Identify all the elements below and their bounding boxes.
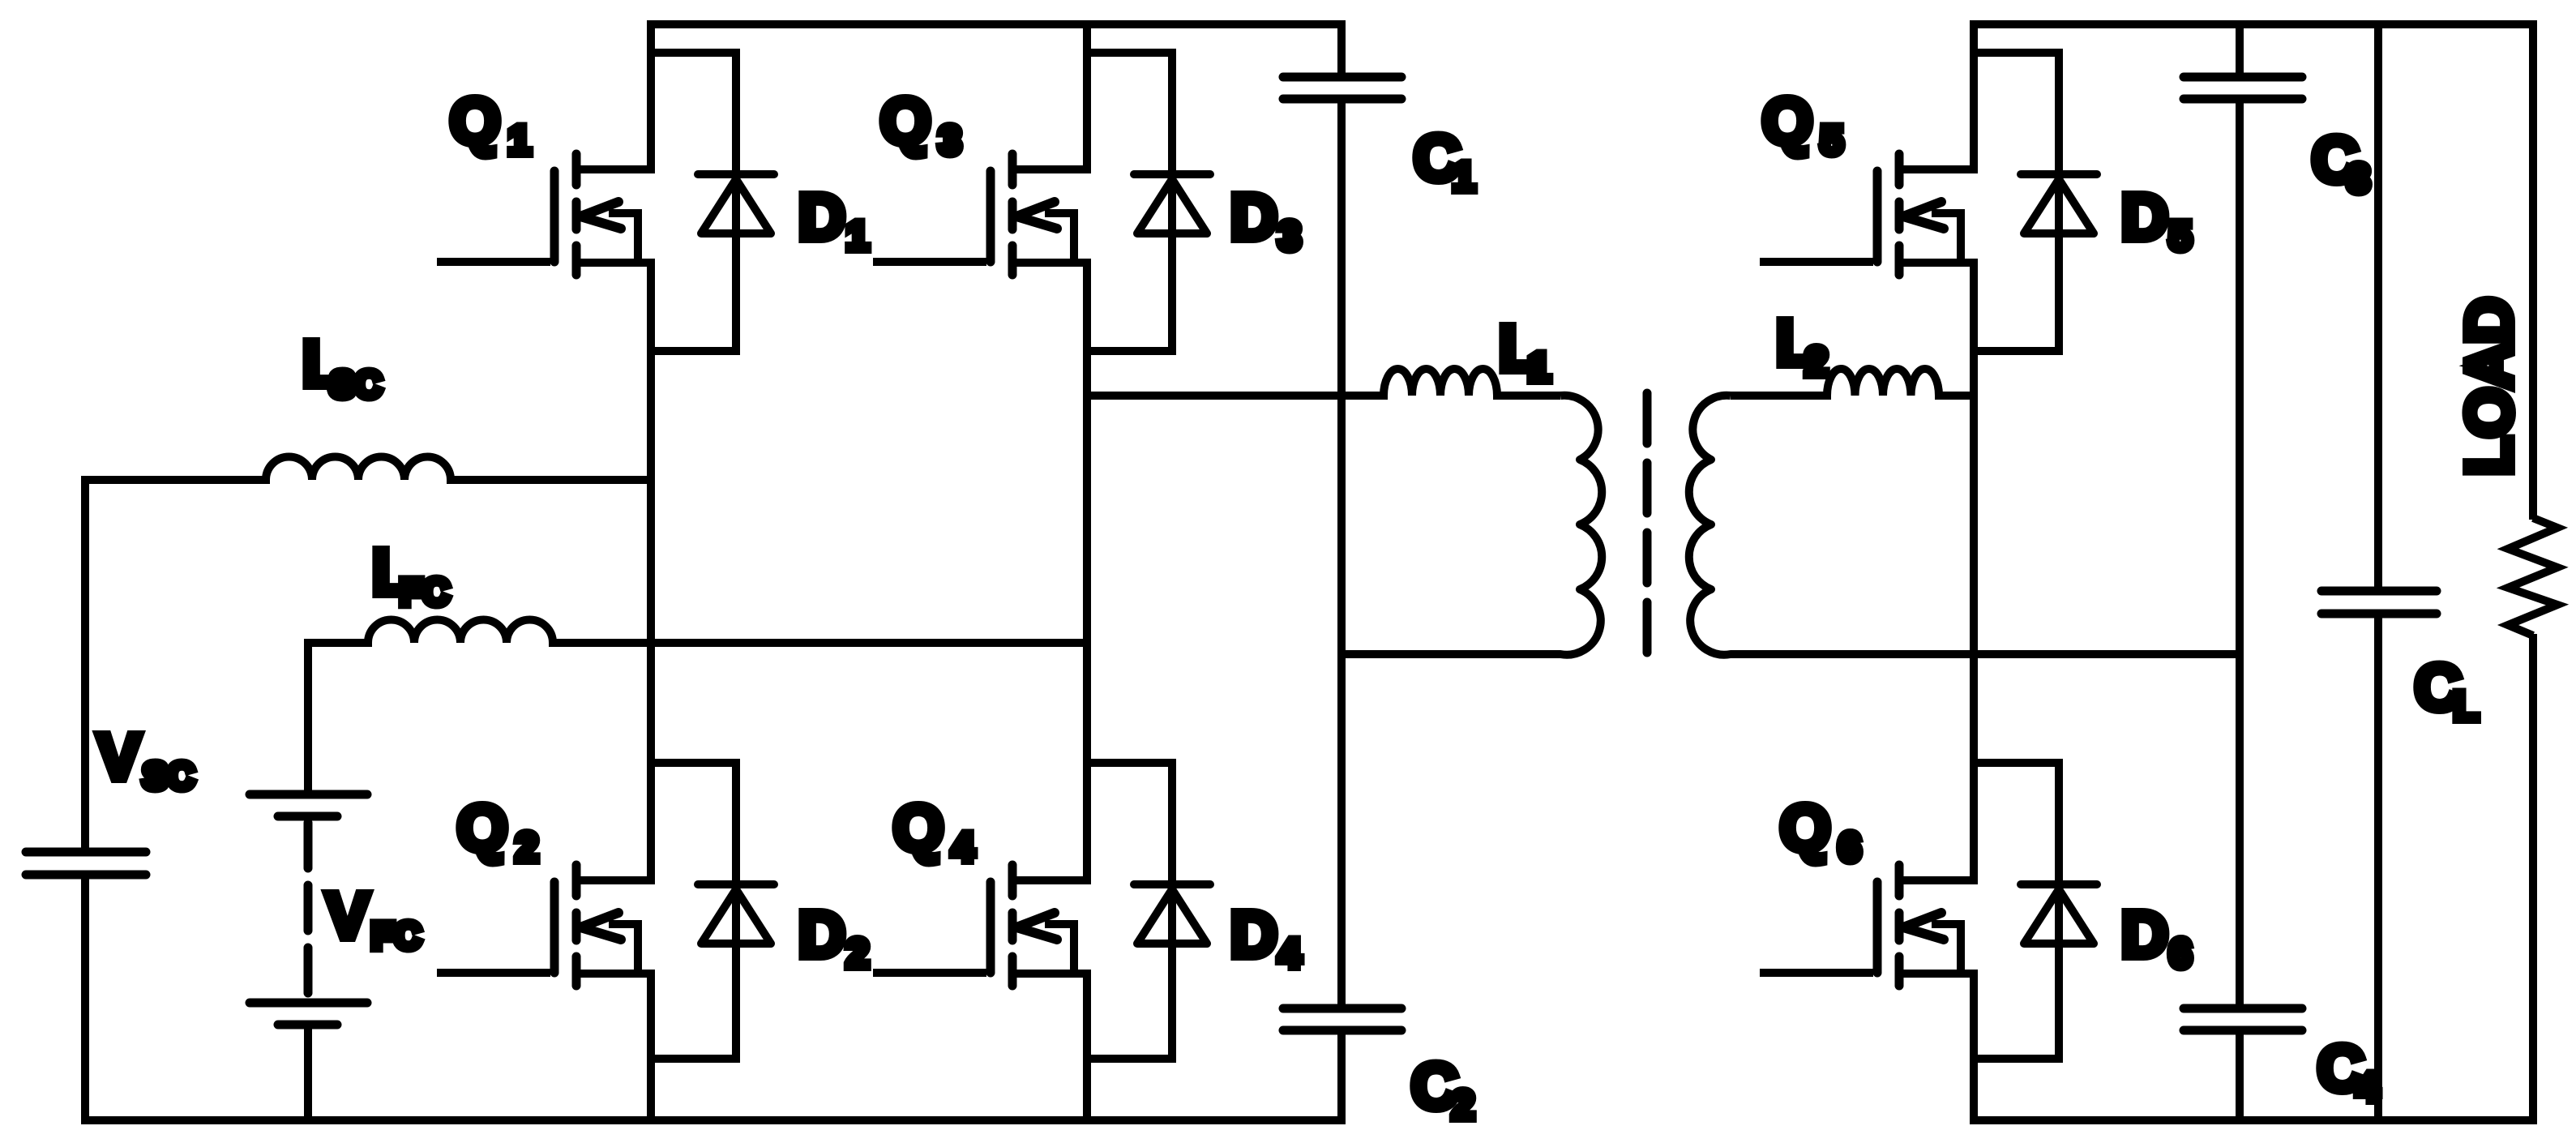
wire Q4 source to bottom rail: [1083, 970, 1091, 1124]
svg-text:6: 6: [2169, 931, 2192, 976]
transistor Q2: [437, 865, 651, 986]
capacitor C4: [2184, 1008, 2302, 1030]
wire top rail primary side: [647, 20, 1346, 28]
inductor Lsc: [85, 457, 651, 481]
wire D3 cathode branch: [1087, 53, 1172, 351]
svg-text:6: 6: [1838, 824, 1861, 870]
wire D2 cathode branch: [651, 763, 736, 1059]
wire bottom rail secondary side: [1970, 1116, 2537, 1124]
svg-text:D: D: [798, 898, 845, 970]
resistor LOAD: [2508, 518, 2557, 636]
svg-text:2: 2: [1805, 339, 1828, 384]
diode D5: [2021, 174, 2097, 233]
wire D5 cathode branch: [1974, 53, 2059, 351]
svg-text:1: 1: [846, 213, 869, 259]
svg-text:FC: FC: [400, 571, 449, 613]
svg-text:Q: Q: [893, 792, 944, 864]
wire D6 cathode branch: [1974, 763, 2059, 1059]
svg-text:3: 3: [939, 118, 961, 163]
svg-text:V: V: [97, 721, 140, 793]
svg-text:D: D: [2121, 181, 2168, 253]
wire D1 cathode branch: [651, 53, 736, 351]
transistor Q4: [873, 865, 1087, 986]
svg-text:D: D: [1230, 181, 1277, 253]
wire CL bus bottom: [2374, 614, 2382, 1124]
wire leg midpoint bus at x=803: [647, 259, 655, 884]
wire top rail secondary side: [1970, 20, 2537, 28]
transistor Q3: [873, 154, 1087, 275]
svg-text:LOAD: LOAD: [2453, 298, 2525, 476]
diode D4: [1134, 884, 1210, 944]
wire C3C4 bus top: [2236, 20, 2244, 77]
wire leg midpoint bus at x=2435: [1970, 259, 1978, 884]
svg-text:Q: Q: [1762, 85, 1812, 157]
svg-text:Q: Q: [880, 85, 931, 157]
transformer core: [1643, 393, 1652, 654]
diode D1: [698, 174, 774, 233]
capacitor C1: [1283, 77, 1401, 99]
wire D4 cathode branch: [1087, 763, 1172, 1059]
diode D2: [698, 884, 774, 944]
svg-text:2: 2: [846, 931, 869, 976]
transistor Q5: [1760, 154, 1974, 275]
wire Q6 source to bottom rail: [1970, 970, 1978, 1124]
wire leg midpoint bus at x=1341: [1083, 259, 1091, 884]
wire C bus middle: [1337, 99, 1346, 1008]
svg-text:L: L: [2454, 683, 2479, 729]
capacitor C2: [1283, 1008, 1401, 1030]
wire Vsc bottom: [81, 875, 89, 1124]
svg-text:4: 4: [1278, 931, 1301, 976]
svg-text:FC: FC: [371, 914, 421, 957]
svg-text:SC: SC: [330, 363, 382, 405]
wire C bus top: [1337, 20, 1346, 77]
capacitor C3: [2184, 77, 2302, 99]
svg-text:3: 3: [1278, 213, 1301, 259]
transformer secondary winding: [1689, 396, 2240, 655]
wire Q2 source to bottom rail: [647, 970, 655, 1124]
svg-text:Q: Q: [457, 792, 507, 864]
battery Vfc: [250, 794, 367, 1025]
inductor L2: [1731, 369, 1974, 396]
wire Vfc top: [304, 639, 312, 794]
svg-text:SC: SC: [143, 755, 195, 797]
svg-text:Q: Q: [1780, 792, 1830, 864]
wire Q5 drain to top rail: [1970, 20, 1978, 173]
svg-text:D: D: [1230, 898, 1277, 970]
wire C3C4 bus bottom: [2236, 1030, 2244, 1124]
svg-text:4: 4: [952, 824, 974, 870]
transistor Q6: [1760, 865, 1974, 986]
svg-text:5: 5: [2169, 213, 2192, 259]
transistor Q1: [437, 154, 651, 275]
wire C3C4 bus middle: [2236, 99, 2244, 1008]
wire LOAD bottom: [2529, 634, 2537, 1124]
svg-text:4: 4: [2356, 1064, 2379, 1110]
svg-text:1: 1: [508, 118, 531, 163]
svg-text:1: 1: [1528, 345, 1551, 390]
wire Vsc top: [81, 476, 89, 852]
capacitor CL: [2321, 591, 2437, 614]
capacitor Vsc: [26, 852, 146, 875]
svg-text:1: 1: [1453, 154, 1475, 199]
svg-text:Q: Q: [450, 85, 500, 157]
svg-text:D: D: [2121, 898, 2168, 970]
svg-text:2: 2: [516, 824, 538, 870]
svg-text:3: 3: [2347, 156, 2370, 201]
wire bottom rail primary side: [81, 1116, 1346, 1124]
svg-text:D: D: [798, 181, 845, 253]
diode D6: [2021, 884, 2097, 944]
wire Q1 drain to top rail: [647, 20, 655, 173]
wire LOAD top: [2529, 20, 2537, 520]
wire Q3 drain to top rail: [1083, 20, 1091, 173]
transformer primary winding: [1341, 396, 1602, 655]
svg-text:V: V: [326, 880, 369, 952]
inductor L1: [1087, 369, 1560, 396]
wire CL bus top: [2374, 20, 2382, 591]
wire Vfc bottom: [304, 1025, 312, 1124]
svg-text:2: 2: [1452, 1082, 1474, 1128]
inductor Lfc: [308, 620, 1087, 644]
svg-text:5: 5: [1821, 118, 1843, 163]
wire C bus bottom: [1337, 1030, 1346, 1124]
diode D3: [1134, 174, 1210, 233]
